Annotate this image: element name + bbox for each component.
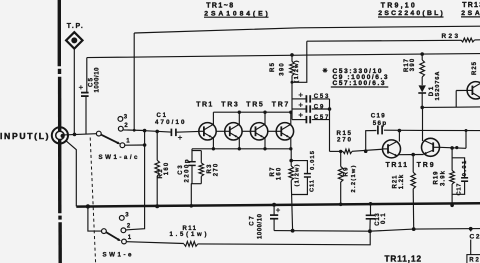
wire feedback line (lower horizontal) (274, 229, 480, 232)
resistor R3 (199, 151, 204, 184)
wire C3/R3 bottom bracket to ground (191, 184, 201, 206)
wire TR3-TR5 (242, 130, 250, 132)
capacitor C7 polarity + (276, 208, 280, 212)
svg-text:270: 270 (337, 136, 352, 143)
wire riser to R23 line (292, 41, 307, 82)
junction TR9 base wire (455, 146, 458, 149)
wire TR1 collector riser (212, 112, 214, 124)
transistor TR5 (250, 123, 267, 140)
wire contact1 to R11 (126, 242, 183, 244)
svg-text:160: 160 (277, 167, 283, 180)
junction C1 branch (143, 129, 147, 133)
svg-text:56p: 56p (373, 120, 387, 127)
switch SW1-e contact 3 (119, 216, 124, 221)
svg-text:0.01: 0.01 (462, 160, 468, 176)
svg-text:TR11,12: TR11,12 (385, 255, 422, 263)
junction R1 ground (155, 204, 159, 208)
svg-text:TR11: TR11 (386, 162, 408, 169)
junction on right rail (328, 107, 332, 111)
wire TR1-TR3 (216, 130, 225, 132)
svg-text:160: 160 (164, 162, 170, 175)
svg-text:390: 390 (279, 63, 285, 76)
wire C19 to output line (384, 129, 480, 131)
wire TR5-TR7 (268, 130, 276, 132)
transistor TR13 (right edge) (467, 82, 480, 99)
junction R19 top (450, 146, 454, 150)
svg-text:C19: C19 (371, 113, 386, 120)
wire second horizontal rail (to R23 riser) (87, 55, 307, 58)
capacitor C1 (171, 129, 176, 137)
test point TP diamond (66, 32, 82, 48)
junction R7 feedback node (291, 229, 295, 233)
resistor R17 (420, 54, 425, 85)
R7 labels (270, 164, 300, 186)
R11 labels (170, 226, 207, 238)
C17 labels (456, 160, 468, 196)
svg-text:1.5(1w): 1.5(1w) (170, 232, 207, 238)
wire R11 to feedback node (198, 231, 371, 245)
capacitor C7 (270, 205, 278, 231)
resistor R21 (411, 155, 416, 230)
junction TP / input wire (73, 133, 77, 137)
R9 labels (344, 165, 358, 192)
resistor R1 (155, 131, 160, 206)
junction R2 branch (469, 227, 473, 231)
C1 polarity + (178, 136, 182, 140)
svg-text:R9: R9 (344, 167, 350, 177)
svg-text:1000/10: 1000/10 (258, 213, 264, 239)
switch SW1-a/c contact 3 (118, 117, 123, 122)
svg-text:R11: R11 (183, 226, 197, 232)
TR13 header (clipped) (461, 2, 480, 17)
junction TR5 emitter (263, 147, 266, 150)
capacitor C3 (188, 151, 195, 184)
R5 labels (270, 60, 300, 82)
wire C5 to input line (85, 97, 87, 135)
switch SW1-e contact 2 (121, 228, 126, 233)
wire rail continues right at y54 (307, 54, 480, 56)
capacitor C53 polarity + (299, 93, 303, 97)
wire TR11-TR9 emitters (398, 154, 423, 156)
svg-text:R21: R21 (393, 175, 399, 189)
svg-text:R23: R23 (442, 33, 459, 40)
R3 labels (207, 163, 220, 176)
svg-text:0.015: 0.015 (310, 150, 316, 170)
junction R9 top (339, 150, 342, 153)
resistor R5 (290, 55, 295, 99)
switch SW1-a/c contact 1 (120, 143, 125, 148)
svg-text:C13: C13 (375, 213, 381, 226)
C13 labels (375, 213, 387, 226)
svg-text:3.9k: 3.9k (440, 170, 446, 186)
note C53/C9/C57 values (323, 68, 389, 88)
wire ground to SW1-e common (88, 206, 102, 231)
junction C13/R11 node (368, 229, 372, 233)
junction R5 top on rail (290, 53, 294, 57)
wire R23 line left segment (307, 39, 461, 42)
capacitor C17 (452, 158, 468, 195)
svg-text:2SA1084(E): 2SA1084(E) (204, 10, 267, 17)
transistor TR7 (276, 123, 293, 140)
svg-text:✳: ✳ (323, 68, 328, 75)
svg-text:1000/10: 1000/10 (95, 67, 101, 93)
diode D1 (418, 85, 426, 107)
junction TR5 collector (263, 111, 266, 114)
svg-text:R7: R7 (270, 167, 276, 177)
C1 labels (155, 113, 185, 126)
wire cap-bank left rail (291, 99, 293, 120)
junction TR1 emitter (212, 147, 215, 150)
svg-text:TR5: TR5 (246, 101, 263, 108)
capacitor C11 (291, 161, 311, 195)
R15 labels (337, 130, 352, 143)
wire C1 to TR1 base (177, 130, 199, 133)
C19 labels (371, 113, 387, 128)
junction TR3 collector (238, 111, 241, 114)
svg-text:TR13,: TR13, (462, 2, 480, 9)
wire to R2 box (470, 229, 472, 255)
svg-text:C17: C17 (456, 184, 462, 196)
capacitor C9 polarity + (299, 103, 303, 107)
transistor TR3 (225, 123, 242, 140)
svg-text:2.2(1w): 2.2(1w) (351, 165, 357, 192)
capacitor C9 (292, 105, 330, 112)
wire TR9 collector riser (422, 107, 424, 141)
resistor R7 (289, 149, 294, 231)
switch SW1-e contact 1 (122, 239, 127, 244)
wire R15 to TR11 base (352, 149, 383, 151)
junction D1 node (420, 106, 424, 110)
junction TR7 collector (289, 111, 292, 114)
TR9,10 header (378, 2, 444, 17)
R1 labels (158, 162, 170, 178)
switch SW1-e arm (106, 232, 121, 241)
capacitor C13 (366, 204, 376, 231)
wire top feedback bus (upper long horizontal) (134, 26, 480, 33)
wire contact2 to vertical bus (123, 129, 144, 132)
svg-text:TR1~8: TR1~8 (206, 3, 233, 10)
svg-text:C11: C11 (309, 179, 315, 192)
junction R1 top on C1 wire (155, 130, 159, 134)
capacitor C57 (292, 116, 330, 123)
wire TR1 emitter drop (212, 138, 214, 149)
svg-text:C57: C57 (314, 115, 329, 121)
svg-text:R19: R19 (433, 171, 439, 185)
switch SW1-e common (102, 229, 107, 234)
C3 labels (178, 159, 191, 182)
wire R23 to right edge (475, 39, 480, 41)
junction R5/riser stub (291, 81, 294, 84)
junction R19 ground (450, 204, 454, 208)
junction SW1-e ground branch (86, 204, 90, 208)
junction R9 ground (339, 203, 343, 207)
R21 labels (393, 174, 406, 189)
transistor TR1 (199, 123, 216, 140)
wire collector bus (213, 111, 292, 113)
R17 junction on rail (420, 52, 424, 56)
svg-text:T.P.: T.P. (67, 23, 83, 30)
wire rail to R15 (330, 150, 343, 152)
switch SW1-a/c contact 2 (118, 126, 123, 131)
wire emitter bus (192, 148, 291, 150)
svg-text:TR1: TR1 (196, 101, 212, 108)
wire TR11 collector riser (398, 131, 400, 142)
junction C7 ground (272, 203, 276, 207)
svg-text:390: 390 (410, 58, 416, 71)
svg-text:TR7: TR7 (272, 101, 289, 108)
wire vertical from top bus down to SW1 contact 2 (133, 33, 135, 130)
junction TR3 emitter (238, 147, 241, 150)
resistor R23 (461, 38, 475, 42)
C5 value label (89, 67, 101, 93)
junction C13 ground (369, 202, 373, 206)
capacitor C57 polarity + (299, 113, 303, 117)
svg-text:TR3: TR3 (221, 101, 238, 108)
D1 labels (429, 71, 441, 101)
thick shield bus (left vertical line with breaks) (58, 0, 62, 263)
switch SW1-a/c common (96, 131, 101, 136)
wire jack sleeve to ground bus (65, 140, 76, 206)
svg-text:0.1: 0.1 (381, 213, 387, 224)
wire TR7 collector riser (290, 112, 292, 124)
C11 labels (309, 150, 315, 192)
svg-text:(1/2w): (1/2w) (295, 164, 301, 186)
wire cap-bank right rail down to R15 (329, 99, 331, 151)
wire TR5 collector riser (264, 112, 266, 124)
transistor TR9 (422, 138, 440, 156)
wire from test point down to input line (73, 49, 75, 135)
wire SW1 to C1 (145, 131, 171, 132)
svg-text:R3: R3 (207, 164, 213, 174)
input jack J1 (52, 127, 68, 143)
R17 labels (404, 58, 416, 72)
ground bus (thick horizontal) (76, 203, 480, 206)
junction C19 branch (364, 149, 368, 153)
resistor R15 (343, 149, 352, 153)
capacitor C53 (292, 95, 330, 102)
capacitor C19 (366, 125, 382, 151)
svg-text:INPUT(L): INPUT(L) (0, 131, 49, 141)
svg-text:1.2k: 1.2k (399, 174, 405, 189)
junction at SW1 contact-2 wire (133, 129, 136, 132)
wire D1 node to right transistor base (422, 90, 480, 107)
junction TR7 emitter (289, 147, 292, 150)
wire contact1 to vertical (125, 144, 145, 146)
R19 labels (433, 170, 446, 186)
resistor R2 box (clipped at edge) (467, 255, 480, 263)
svg-text:2SA9: 2SA9 (461, 10, 480, 17)
TR1~8 header (204, 3, 269, 18)
junction TR11 collector (398, 129, 402, 133)
svg-text:R5: R5 (270, 62, 276, 72)
wire TR3 emitter drop (238, 138, 240, 149)
wire vertical down to SW1-e contact2 (126, 131, 145, 230)
junction C11 branch (289, 159, 293, 163)
resistor R11 (184, 242, 198, 247)
svg-text:(1/2w): (1/2w) (294, 60, 300, 82)
resistor R9 (338, 151, 343, 204)
wire input jack tip to switch common (64, 134, 97, 135)
wire TR9 base to feedback riser (440, 131, 467, 149)
svg-text:270: 270 (213, 163, 219, 176)
svg-text:R25: R25 (472, 61, 478, 75)
resistor R19 (450, 148, 455, 205)
switch SW1-a/c arm (101, 135, 120, 145)
wire from rail down to C5 (86, 58, 88, 93)
capacitor C5 polarity + (79, 85, 83, 89)
C7 labels (250, 213, 264, 239)
junction riser on output wire (465, 129, 468, 132)
svg-text:TR9: TR9 (417, 162, 434, 169)
junction contact1 wire (143, 143, 147, 147)
transistor TR11 (383, 140, 401, 158)
wire TR5 emitter drop (264, 138, 266, 149)
svg-text:C53: C53 (314, 94, 329, 100)
capacitor C5 (81, 93, 89, 97)
wire TR3 collector riser (238, 112, 240, 124)
junction R21 node (412, 227, 416, 231)
junction emitters R21 (411, 153, 415, 157)
wire C3/R3 top bracket (192, 149, 201, 151)
junction C3R3 ground (190, 204, 194, 208)
wire TR7 emitter drop (290, 138, 292, 149)
svg-text:C57:100/6.3: C57:100/6.3 (333, 80, 385, 87)
switch linkage dashed line (90, 138, 95, 263)
svg-text:1S2076A: 1S2076A (435, 71, 441, 101)
